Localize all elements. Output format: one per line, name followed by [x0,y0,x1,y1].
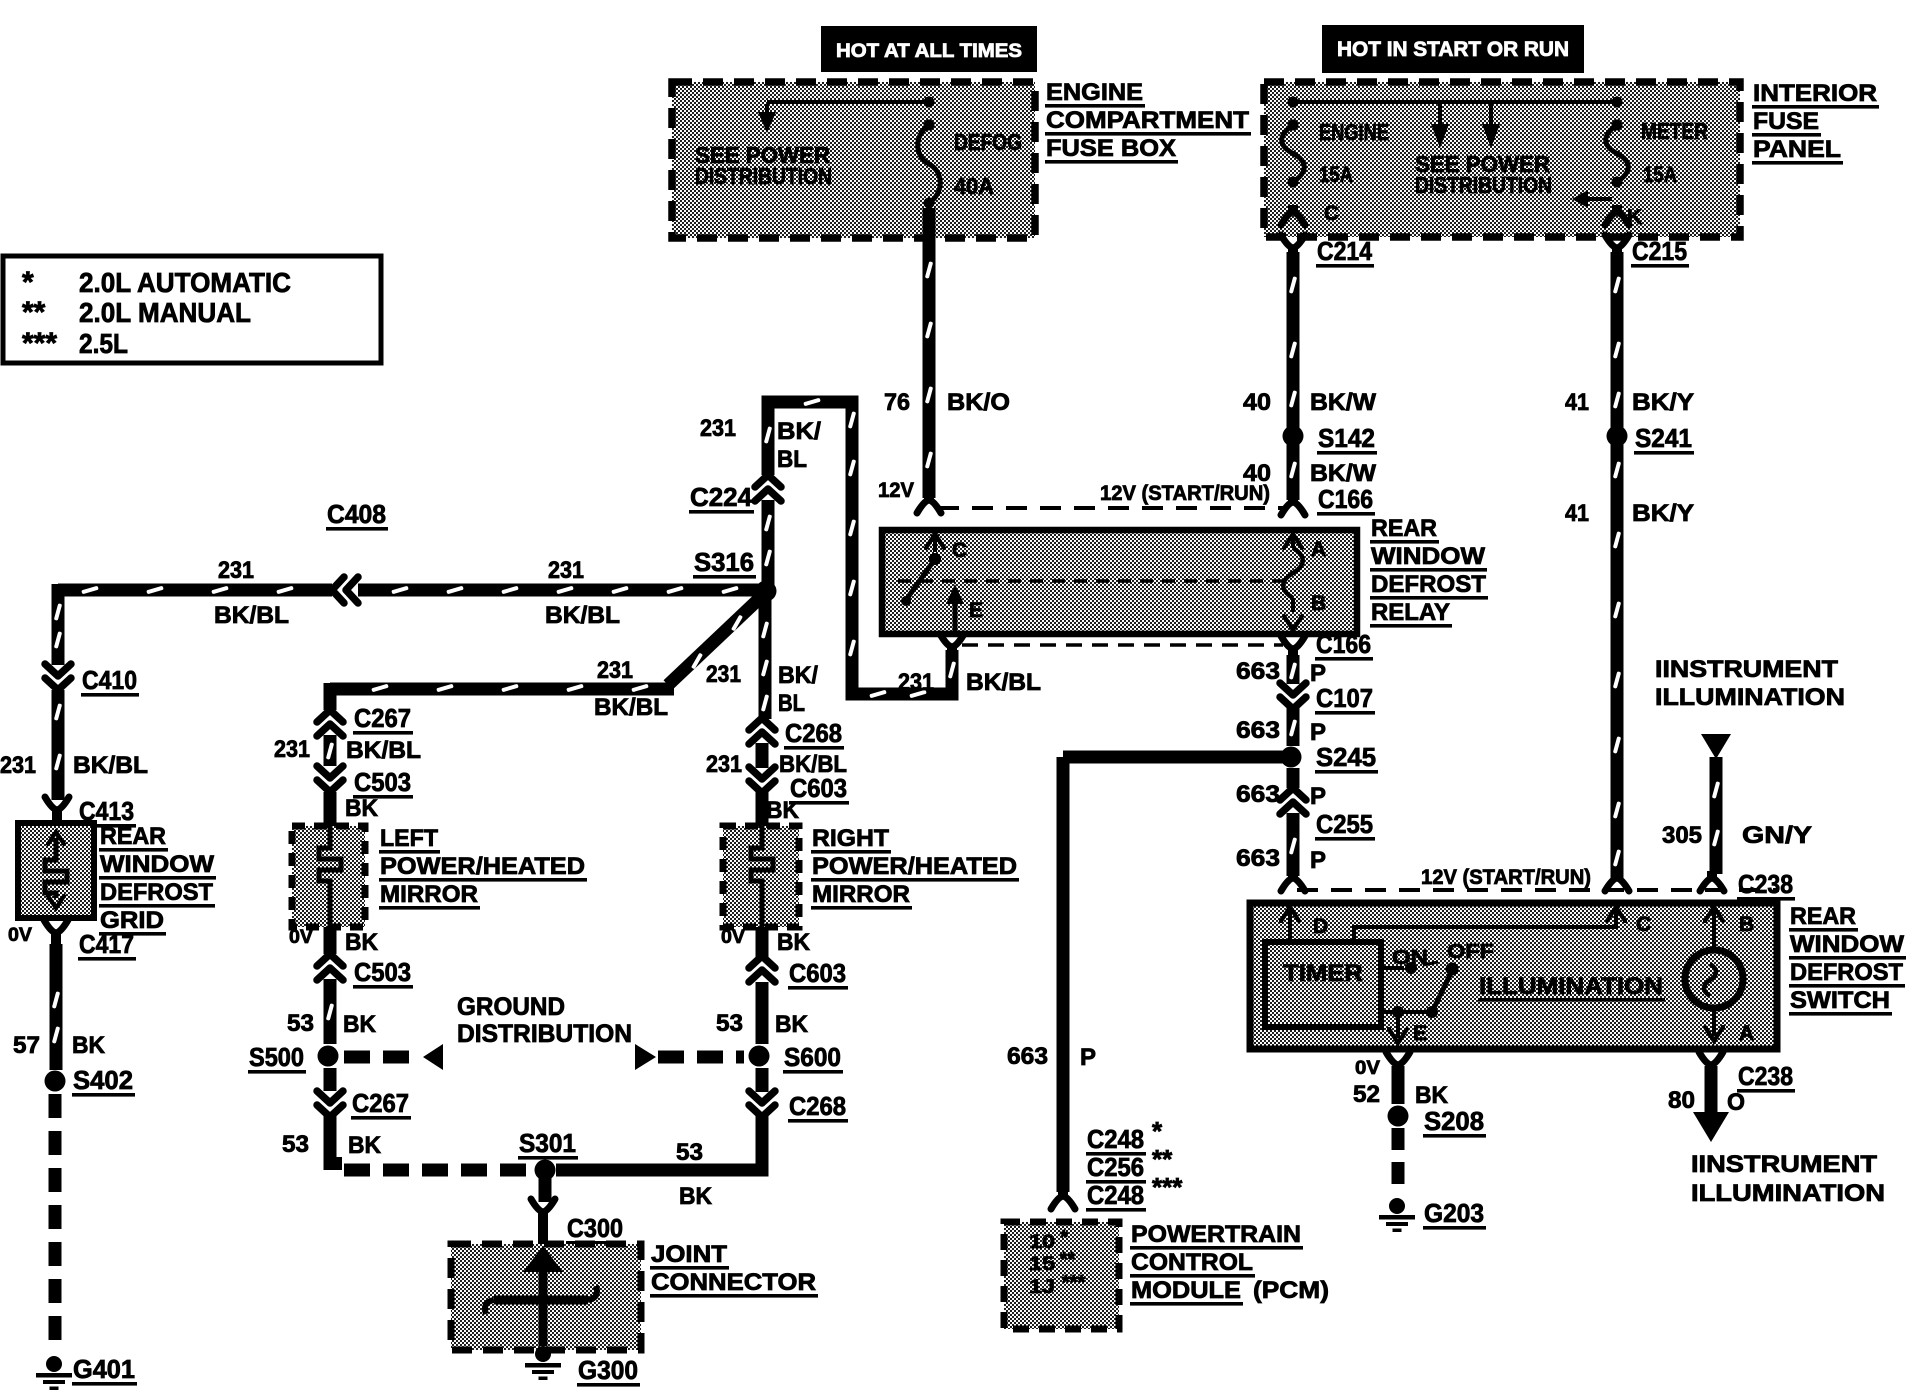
svg-text:663: 663 [1007,1043,1048,1070]
connector C214 [1281,235,1305,248]
svg-text:C: C [952,539,967,562]
wire 231 BK/BL between C267 C503 [324,735,337,766]
svg-text:15A: 15A [1643,162,1677,187]
relay box [882,530,1357,634]
svg-text:BK/: BK/ [777,418,821,445]
svg-text:C238: C238 [1738,1061,1793,1091]
svg-text:C268: C268 [789,1091,846,1121]
wire 76 BK/O [923,208,936,498]
svg-text:C215: C215 [1632,236,1687,266]
svg-text:S301: S301 [519,1128,576,1158]
svg-text:RELAY: RELAY [1371,599,1450,626]
svg-text:BK/BL: BK/BL [73,752,148,779]
relay pin C [926,534,944,548]
svg-text:BK: BK [343,1011,377,1038]
legend box 2.0L/2.5L [3,256,381,363]
svg-text:BK: BK [72,1032,106,1059]
svg-text:WINDOW: WINDOW [1371,543,1485,570]
splice S500 [318,1046,339,1067]
svg-text:663: 663 [1236,658,1280,685]
switch pin D [1281,907,1299,921]
fork C166 top [1281,502,1305,515]
feed line and arrows in interior panel [1293,100,1617,104]
splice S241 [1607,426,1628,447]
svg-text:15: 15 [1029,1254,1056,1275]
splice S402 [45,1071,66,1092]
dashed ground wire to G401 [49,1094,62,1352]
svg-text:GN/Y: GN/Y [1742,822,1812,849]
joint connector box [539,1178,552,1202]
svg-text:DISTRIBUTION: DISTRIBUTION [695,163,832,189]
header HOT IN START OR RUN [1322,25,1584,73]
connector C603 lower [749,956,775,968]
svg-text:12V (START/RUN): 12V (START/RUN) [1100,482,1270,505]
svg-text:BK/BL: BK/BL [214,602,289,629]
joint connector symbol [523,1246,563,1272]
svg-text:52: 52 [1353,1081,1380,1108]
svg-text:WINDOW: WINDOW [1790,931,1904,958]
ground G401 [46,1356,62,1372]
svg-text:POWER/HEATED: POWER/HEATED [812,853,1017,880]
svg-text:663: 663 [1236,781,1280,808]
svg-text:FUSE BOX: FUSE BOX [1046,135,1176,162]
svg-text:**: ** [22,296,46,329]
splice S316 [756,581,777,602]
svg-text:53: 53 [282,1131,309,1158]
fuse DEFOG 40A [924,97,935,108]
svg-text:BK: BK [679,1183,713,1210]
svg-text:LEFT: LEFT [380,825,438,852]
svg-text:S500: S500 [249,1042,304,1072]
svg-text:53: 53 [287,1010,314,1037]
main horizontal wire 231 BK/BL [58,584,332,597]
feed arrow in engine fuse box [767,100,929,104]
arrow from meter fuse [1588,197,1612,201]
svg-text:80: 80 [1668,1087,1695,1114]
svg-text:POWER/HEATED: POWER/HEATED [380,853,585,880]
svg-text:BK/BL: BK/BL [545,602,620,629]
relay pin E [946,584,964,604]
svg-text:10: 10 [1029,1232,1055,1253]
svg-text:(PCM): (PCM) [1253,1277,1329,1304]
svg-text:C256: C256 [1087,1152,1144,1182]
svg-text:C410: C410 [82,665,137,695]
connector C267 [317,710,343,722]
svg-text:C224: C224 [690,482,753,512]
powertrain control module box [1004,1222,1119,1329]
svg-text:BK: BK [1415,1082,1449,1109]
svg-text:***: *** [1062,1272,1086,1294]
svg-text:C300: C300 [567,1213,623,1243]
rear window defrost switch box [1250,903,1777,1049]
svg-text:BK/W: BK/W [1310,389,1376,416]
wire 52 BK [1392,1066,1405,1104]
svg-text:IINSTRUMENT: IINSTRUMENT [1691,1151,1877,1178]
wire BK into left mirror [324,792,337,826]
svg-text:BK/W: BK/W [1310,460,1376,487]
svg-text:E: E [1413,1022,1427,1045]
svg-text:305: 305 [1662,822,1702,849]
svg-text:D: D [1313,915,1328,938]
svg-text:C214: C214 [1317,236,1372,266]
wire 40 BK/W from C214 [1287,252,1300,500]
fork 41 wire at switch [1605,878,1629,891]
svg-text:CONTROL: CONTROL [1131,1249,1253,1276]
svg-text:WINDOW: WINDOW [100,851,214,878]
ground G203 [1389,1198,1405,1214]
svg-text:12V (START/RUN): 12V (START/RUN) [1421,866,1591,889]
svg-text:**: ** [1060,1249,1076,1271]
wire 663 P chain below relay [1287,655,1300,684]
svg-text:BL: BL [777,446,807,473]
diagonal wire from S316 [668,597,761,685]
connector C267 lower [317,1105,343,1117]
svg-text:C: C [1636,913,1651,936]
wire 231 BK/BL from relay E to C224 and S316 [768,402,952,694]
svg-text:53: 53 [716,1010,743,1037]
svg-text:BL: BL [778,690,805,717]
svg-text:TIMER: TIMER [1283,960,1363,987]
horizontal wire to left mirror branch [330,683,674,696]
svg-text:BK: BK [775,1011,809,1038]
svg-text:ENGINE: ENGINE [1046,79,1143,106]
wire to C267 lower [324,1068,337,1091]
svg-text:S208: S208 [1424,1106,1484,1136]
svg-text:GROUND: GROUND [457,993,565,1021]
svg-text:BK/: BK/ [778,662,818,689]
svg-text:BK: BK [345,795,379,822]
svg-text:76: 76 [884,389,910,416]
svg-text:C166: C166 [1316,629,1371,659]
svg-text:S316: S316 [694,547,754,577]
wire 41 BK/Y from C215 [1611,252,1624,878]
connector C107 [1280,697,1306,709]
wire 80 O [1705,1066,1718,1112]
svg-text:2.5L: 2.5L [79,328,128,359]
rear window defrost grid box [18,823,94,918]
svg-text:0V: 0V [8,925,32,946]
svg-text:IINSTRUMENT: IINSTRUMENT [1655,656,1838,683]
splice S208 [1388,1106,1409,1127]
svg-text:2.0L AUTOMATIC: 2.0L AUTOMATIC [79,267,291,298]
svg-text:57: 57 [13,1032,40,1059]
svg-text:BK/BL: BK/BL [779,751,847,778]
svg-text:REAR: REAR [1371,515,1437,542]
svg-text:MIRROR: MIRROR [812,881,910,908]
wire down to C267 [324,683,337,710]
svg-text:JOINT: JOINT [651,1241,727,1268]
svg-text:REAR: REAR [100,823,166,850]
svg-text:BK/BL: BK/BL [966,669,1041,696]
svg-text:E: E [969,599,983,622]
svg-text:231: 231 [597,657,633,684]
svg-text:C267: C267 [354,703,411,733]
svg-text:C503: C503 [354,767,411,797]
svg-text:DEFROST: DEFROST [100,879,213,906]
svg-text:S402: S402 [73,1065,133,1095]
fork below switch pin E [1386,1052,1410,1065]
dashed ground wire to G203 [1392,1128,1405,1196]
connector C410 [45,678,71,690]
svg-text:C248: C248 [1087,1180,1144,1210]
left mirror heater element [319,826,341,927]
fork C238 below switch pin A [1699,1052,1723,1065]
connector C503 [317,780,343,792]
fork C166 below relay [1281,636,1305,649]
svg-text:S241: S241 [1635,423,1692,453]
svg-text:P: P [1310,783,1326,810]
svg-text:DISTRIBUTION: DISTRIBUTION [457,1020,632,1048]
wire BK below right mirror [756,927,769,957]
engine compartment fuse box [672,82,1035,238]
svg-text:S600: S600 [784,1042,841,1072]
svg-text:2.0L MANUAL: 2.0L MANUAL [79,297,251,328]
svg-text:RIGHT: RIGHT [812,825,889,852]
svg-text:DISTRIBUTION: DISTRIBUTION [1415,172,1552,198]
relay coil and pin A pin B [1284,534,1302,548]
inline connector on horizontal wire [332,577,344,603]
svg-text:BK: BK [345,929,379,956]
svg-text:BK: BK [348,1132,382,1159]
svg-text:BK: BK [777,929,811,956]
svg-text:40A: 40A [954,173,994,199]
svg-text:C255: C255 [1316,809,1373,839]
wire 663 P to PCM [1063,751,1283,764]
wire 231 BK/BL between C268 C603 [756,743,769,768]
switch ON OFF contacts [1381,966,1404,970]
svg-text:S142: S142 [1318,423,1375,453]
svg-text:C: C [1324,202,1339,225]
interior fuse panel [1264,82,1740,237]
svg-text:C267: C267 [352,1088,409,1118]
svg-text:MODULE: MODULE [1131,1277,1241,1304]
svg-text:G401: G401 [73,1354,135,1384]
svg-text:BK/O: BK/O [947,389,1010,416]
svg-text:HOT IN START OR RUN: HOT IN START OR RUN [1337,38,1569,61]
svg-text:1J: 1J [1029,1277,1055,1298]
switch pin C [1607,907,1625,921]
svg-text:C166: C166 [1318,484,1373,514]
ground distribution arrows [423,1044,443,1070]
right mirror heater element [751,826,773,927]
svg-text:ILLUMINATION: ILLUMINATION [1691,1180,1885,1207]
svg-text:A: A [1739,1022,1754,1045]
fuse ENGINE 15A [1288,97,1299,108]
svg-text:231: 231 [898,669,934,696]
svg-text:BK/Y: BK/Y [1632,500,1694,527]
svg-text:BK/BL: BK/BL [594,694,668,721]
svg-text:MIRROR: MIRROR [380,881,478,908]
fork at PCM [1051,1196,1075,1209]
svg-text:INTERIOR: INTERIOR [1753,80,1877,107]
svg-text:HOT AT ALL TIMES: HOT AT ALL TIMES [836,41,1022,62]
connector C215 [1605,235,1629,248]
wire 57 BK [50,944,63,1070]
svg-text:FUSE: FUSE [1753,108,1819,135]
svg-text:***: *** [22,327,57,360]
svg-text:231: 231 [548,557,584,584]
connector C268 upper [749,718,775,730]
svg-text:G300: G300 [578,1355,638,1385]
svg-text:231: 231 [700,415,736,442]
svg-text:*: * [1060,1227,1068,1249]
svg-text:53: 53 [676,1139,703,1166]
wire 53 BK corner to S301 [330,1116,342,1164]
svg-text:41: 41 [1565,389,1589,416]
fork relay pin E output [940,634,964,647]
svg-text:METER: METER [1641,118,1708,144]
svg-text:*: * [1152,1116,1163,1146]
arrow to instrument illumination [1693,1112,1729,1142]
dashed line below relay [962,643,1283,647]
svg-text:C268: C268 [785,718,842,748]
left vertical wire 231 BK/BL to grid [52,584,65,665]
svg-text:C248: C248 [1087,1124,1144,1154]
wire 53 BK above S600 [756,982,769,1044]
svg-text:C417: C417 [79,929,134,959]
svg-text:POWERTRAIN: POWERTRAIN [1131,1221,1301,1248]
fork 76 wire at relay [917,500,941,513]
svg-text:***: *** [1152,1172,1183,1202]
svg-text:B: B [1311,592,1326,615]
header HOT AT ALL TIMES [821,26,1037,72]
svg-text:663: 663 [1236,717,1280,744]
svg-text:K: K [1627,206,1642,229]
svg-text:*: * [22,266,34,299]
svg-text:BK/BL: BK/BL [346,737,421,764]
svg-text:DEFROST: DEFROST [1371,571,1486,598]
svg-text:C603: C603 [789,958,846,988]
wire 53 BK to S500 [324,979,337,1044]
connector C224 [755,475,781,487]
left power/heated mirror box [292,826,365,927]
svg-text:C107: C107 [1316,683,1373,713]
svg-text:ILLUMINATION: ILLUMINATION [1655,684,1845,711]
ground G300 [535,1346,551,1362]
connector C255 [1280,788,1306,800]
fork C413 at grid [45,797,69,810]
svg-text:C238: C238 [1738,869,1793,899]
dashed 12V START/RUN line to relay [938,506,1288,510]
svg-text:231: 231 [274,736,310,763]
connector C268 lower [749,1105,775,1117]
svg-text:SWITCH: SWITCH [1790,987,1890,1014]
fuse METER 15A [1612,97,1623,108]
svg-text:C503: C503 [354,957,411,987]
fork 663 wire at switch pin D [1281,878,1305,891]
svg-text:DEFROST: DEFROST [1790,959,1903,986]
switch pin B and lamp [1705,907,1723,921]
wire BK into right mirror [756,792,769,826]
wire to S600 [756,1068,769,1092]
svg-text:41: 41 [1565,500,1589,527]
splice S245 [1281,747,1302,768]
relay internal dashed line [898,579,1284,583]
svg-text:C408: C408 [327,499,386,529]
svg-text:COMPARTMENT: COMPARTMENT [1046,107,1249,134]
svg-text:P: P [1080,1044,1096,1071]
svg-text:40: 40 [1243,389,1271,416]
svg-text:S245: S245 [1316,742,1376,772]
svg-text:231: 231 [706,751,742,778]
relay contact arm [906,559,935,600]
fork 305 wire at switch [1700,878,1724,891]
svg-text:12V: 12V [878,479,914,502]
grid element symbol [48,832,64,844]
svg-text:G203: G203 [1424,1198,1484,1228]
svg-text:**: ** [1152,1144,1173,1174]
splice S301 [535,1160,556,1181]
right power/heated mirror box [723,826,799,927]
svg-text:OFF: OFF [1447,941,1494,963]
timer box [1265,942,1381,1027]
svg-text:0V: 0V [289,927,313,948]
svg-text:ON: ON [1392,947,1428,969]
connector C503 lower [317,954,343,966]
svg-text:ILLUMINATION: ILLUMINATION [1479,973,1663,1000]
svg-text:PANEL: PANEL [1753,136,1841,163]
svg-text:REAR: REAR [1790,903,1856,930]
wire 305 GN/Y instrument illumination [1701,734,1731,759]
svg-text:CONNECTOR: CONNECTOR [651,1269,816,1296]
svg-text:15A: 15A [1319,162,1353,187]
splice S600 [749,1046,770,1067]
svg-text:P: P [1310,847,1326,874]
svg-text:231: 231 [0,752,36,779]
svg-text:231: 231 [218,557,254,584]
connector C603 upper [749,781,775,793]
svg-text:ENGINE: ENGINE [1319,119,1389,145]
svg-text:BK/Y: BK/Y [1632,389,1694,416]
wire 53 BK S301 to right column [556,1164,769,1177]
svg-text:663: 663 [1236,845,1280,872]
wire 231 BK/BL from S316 down [759,598,772,719]
splice S142 [1283,426,1304,447]
svg-text:231: 231 [706,661,741,688]
svg-text:O: O [1727,1089,1745,1116]
dashed 12V line above switch [1297,888,1779,892]
svg-text:DEFOG: DEFOG [954,129,1022,155]
dashed wire S500 segment to S301 [344,1164,532,1177]
svg-text:B: B [1739,913,1754,936]
svg-text:0V: 0V [1355,1058,1380,1079]
svg-text:A: A [1311,538,1326,561]
switch arm and pin E [1381,1010,1430,1014]
